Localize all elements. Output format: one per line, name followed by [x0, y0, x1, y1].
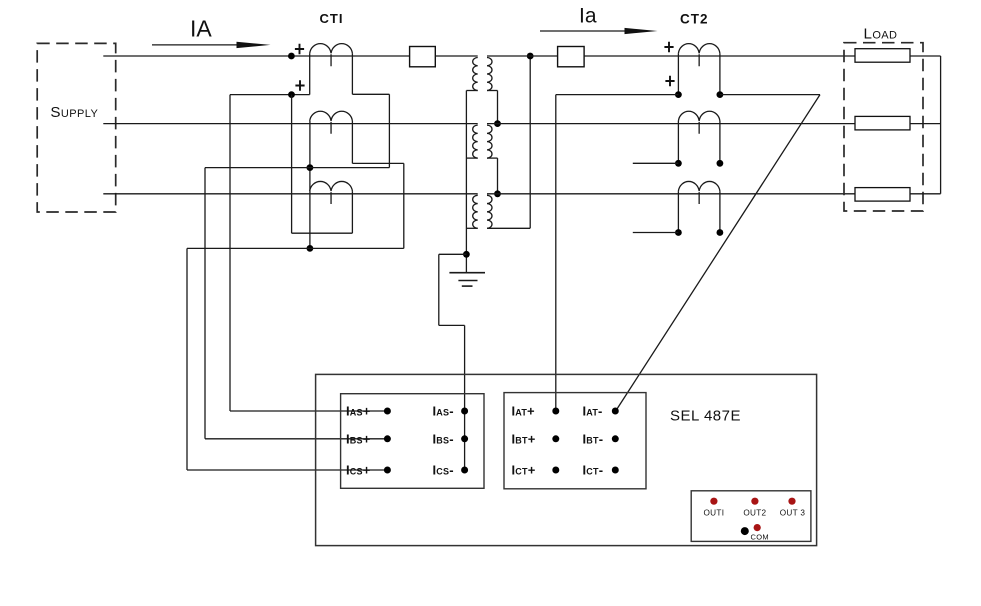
CT1-C right lead: [351, 191, 353, 233]
transformer primary winding C (wye): [473, 195, 478, 228]
CT1-A left lead: [309, 53, 311, 94]
CT2-B left lead: [677, 121, 679, 163]
svg-text:Ias+: Ias+: [346, 404, 371, 419]
supply source box: [37, 43, 116, 212]
node delta-C dot: [494, 190, 501, 197]
wire neutral to ground dot: [465, 254, 467, 272]
CT2 phase C winding: [678, 181, 720, 204]
svg-text:SEL 487E: SEL 487E: [670, 408, 741, 425]
CT2-A polarity mark +: [664, 42, 673, 53]
CT1-A polarity mark +: [295, 44, 304, 55]
wye neutral bus: [465, 91, 467, 255]
svg-text:Ia: Ia: [579, 4, 597, 27]
svg-text:Ict+: Ict+: [512, 463, 536, 478]
svg-text:Ibt-: Ibt-: [583, 431, 604, 446]
CT1-A secondary polarity mark +: [295, 80, 304, 91]
Ia arrow: [540, 30, 645, 32]
CT2-C right lead: [719, 191, 721, 232]
LED OUT2: [751, 498, 758, 505]
relay SEL 487E outer box: [316, 374, 817, 545]
wire phase A transformer to fuse F2: [487, 55, 558, 57]
CT2-B right terminal dot: [717, 160, 724, 167]
svg-text:Ibs-: Ibs-: [433, 431, 454, 446]
wire node A down to CT1-C loop: [291, 95, 293, 234]
node C junction dot: [307, 245, 314, 252]
CT2-A left lead: [677, 53, 679, 94]
CT2-A left terminal dot: [675, 91, 682, 98]
svg-text:OUT2: OUT2: [743, 509, 766, 518]
svg-text:COM: COM: [751, 532, 769, 541]
LED OUT1: [710, 498, 717, 505]
wire phase B supply to transformer: [103, 123, 477, 125]
wire IAT+ feed vertical: [555, 95, 557, 411]
wire ICS+ feed vertical: [186, 248, 188, 470]
wire node C bus: [187, 247, 404, 249]
wire phase C transformer to load: [487, 193, 855, 195]
node phase A dot: [288, 53, 295, 60]
svg-text:Supply: Supply: [50, 104, 98, 121]
transformer secondary winding A (delta): [487, 58, 492, 91]
transformer primary winding A (wye): [473, 58, 478, 91]
svg-text:Ics-: Ics-: [433, 463, 454, 478]
transformer secondary winding C (delta): [487, 195, 492, 228]
CT2 phase B winding: [678, 111, 720, 134]
CT1 phase A winding: [310, 44, 353, 67]
svg-text:Ics+: Ics+: [346, 463, 371, 478]
wire F1 to transformer: [435, 55, 477, 57]
wire node B bus: [205, 167, 389, 169]
wire IBS+ feed vertical: [204, 168, 206, 439]
svg-text:IA: IA: [190, 16, 212, 42]
relay S-terminal box: [341, 394, 484, 489]
CT1-A right lead: [351, 53, 353, 94]
load resistor phase A: [855, 49, 910, 63]
node B junction dot: [307, 164, 314, 171]
svg-text:OUTI: OUTI: [704, 509, 725, 518]
COM terminal: [741, 527, 749, 535]
svg-text:OUT 3: OUT 3: [780, 509, 806, 518]
CT2-C right terminal dot: [717, 229, 724, 236]
CT2-B stub wire: [633, 162, 679, 164]
CT2-A secondary polarity mark +: [665, 76, 674, 87]
wire phase C supply to transformer: [103, 193, 477, 195]
wire IAS+ feed vertical: [229, 95, 231, 411]
CT2-B left terminal dot: [675, 160, 682, 167]
delta link A-B: [487, 90, 498, 92]
CT2 phase A winding: [678, 44, 720, 67]
svg-text:CT2: CT2: [680, 12, 709, 27]
load common bus: [940, 56, 942, 194]
svg-text:Ias-: Ias-: [433, 404, 454, 419]
fuse F2: [558, 47, 585, 67]
svg-text:Ibt+: Ibt+: [512, 431, 536, 446]
CT1 phase C winding: [310, 181, 353, 204]
svg-text:Iat+: Iat+: [512, 404, 536, 419]
transformer primary winding B (wye): [473, 125, 478, 158]
CT1 phase B winding: [310, 111, 353, 134]
wire phase A supply to fuse F1: [103, 55, 409, 57]
wire phase B transformer to load: [487, 123, 855, 125]
wire IAT+ feed horizontal: [556, 94, 679, 96]
wire node A to CT1-A: [230, 94, 310, 96]
wire phase A F2 to load: [584, 55, 855, 57]
CT1-B right lead: [351, 121, 353, 163]
wye neutral jogs: [466, 90, 477, 92]
svg-text:Ibs+: Ibs+: [346, 431, 371, 446]
node delta-A dot: [527, 53, 534, 60]
ground symbol: [449, 272, 485, 274]
node A junction dot: [288, 91, 295, 98]
wire IAT- feed horizontal: [720, 94, 820, 96]
wire ICS+ feed horizontal: [187, 469, 387, 471]
wire ground to relay common: [439, 253, 467, 255]
relay T-terminal box: [504, 393, 646, 489]
svg-text:Iat-: Iat-: [583, 404, 603, 419]
svg-text:CTI: CTI: [320, 11, 344, 26]
output panel box: [691, 491, 811, 542]
wire IAS+ feed horizontal: [230, 410, 387, 412]
CT2-C stub wire: [633, 232, 679, 234]
ground junction dot: [463, 251, 470, 258]
delta link C-A: [487, 227, 530, 229]
wire IBS+ feed horizontal: [205, 438, 387, 440]
transformer secondary winding B (delta): [487, 125, 492, 158]
CT2-B right lead: [719, 121, 721, 163]
node delta-B dot: [494, 120, 501, 127]
fuse F1: [410, 47, 436, 67]
load resistor phase B: [855, 116, 910, 129]
load box: [844, 43, 923, 211]
svg-text:Ict-: Ict-: [583, 463, 604, 478]
IA arrow: [152, 44, 258, 46]
CT2-C left terminal dot: [675, 229, 682, 236]
CT2-C left lead: [677, 191, 679, 232]
wire IAT- feed diagonal: [616, 95, 820, 411]
LED OUT3: [788, 498, 795, 505]
load right stubs: [910, 55, 941, 57]
CT2-A right lead: [719, 53, 721, 94]
CT1-C loop bottom wire: [292, 232, 353, 234]
CT1-B left lead / CT1-C left lead: [309, 121, 311, 248]
load resistor phase C: [855, 188, 910, 202]
svg-text:Load: Load: [864, 26, 898, 43]
delta link B-C: [487, 157, 498, 159]
CT2-A right terminal dot: [717, 91, 724, 98]
